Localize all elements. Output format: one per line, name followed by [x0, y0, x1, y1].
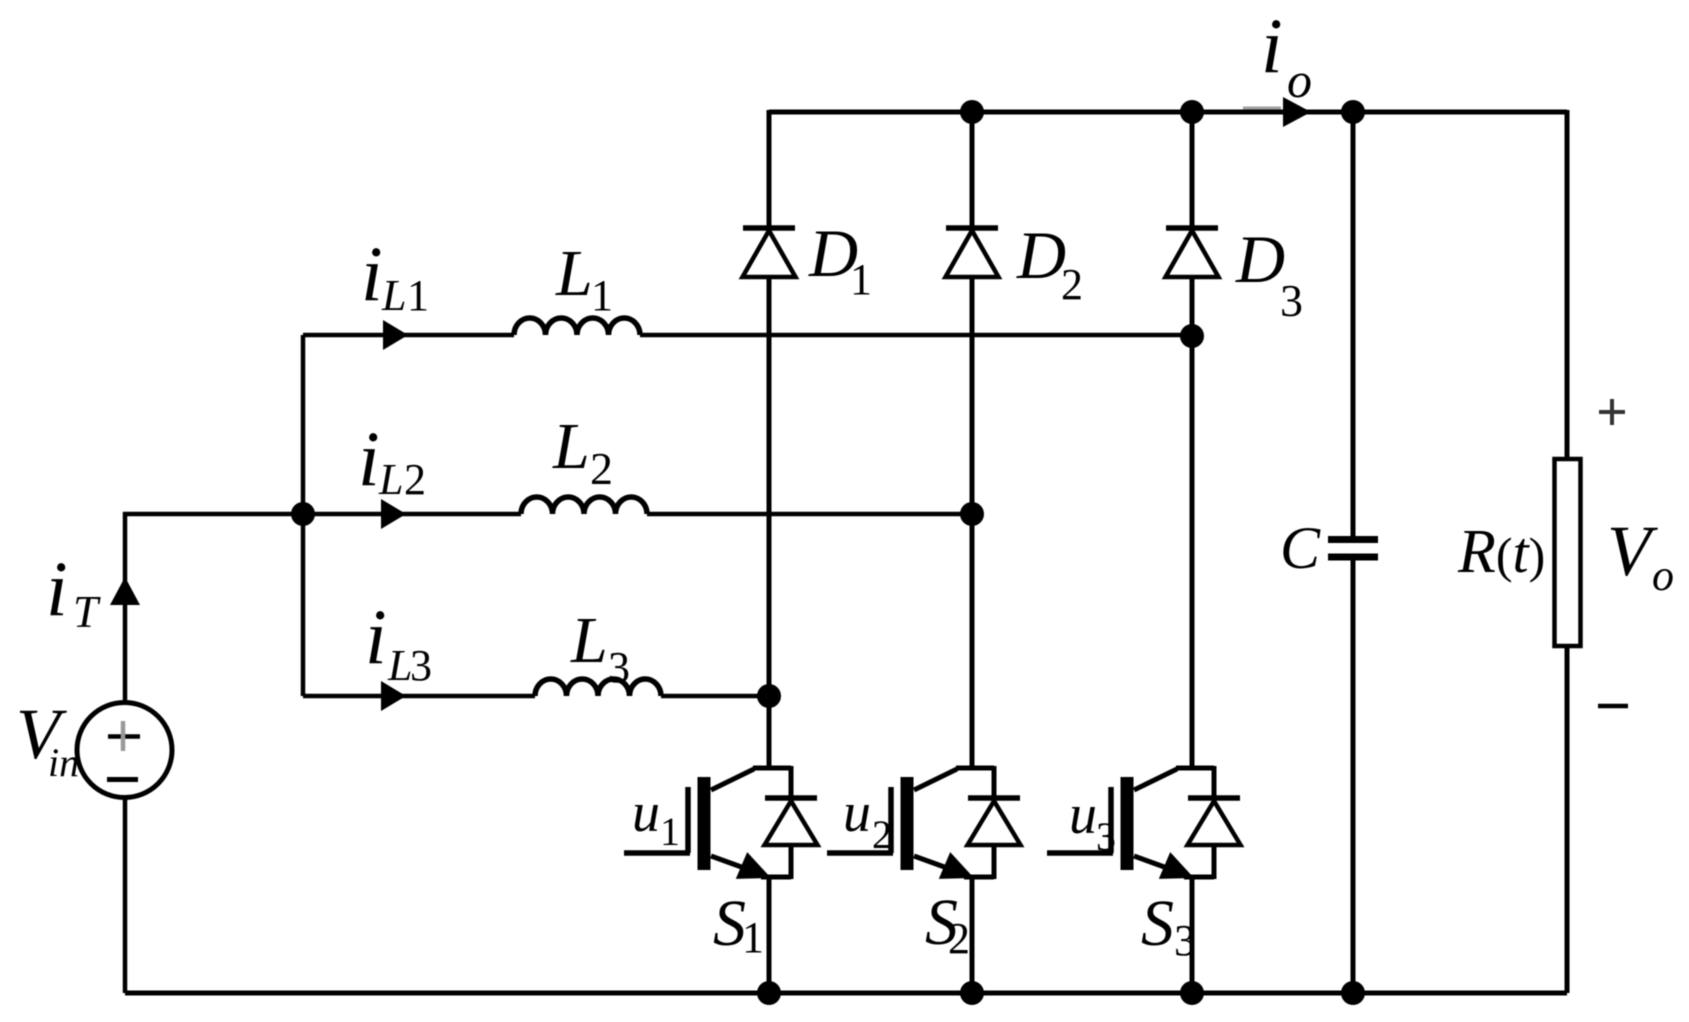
svg-text:C: C	[1280, 515, 1321, 581]
transistor S1 (IGBT with antiparallel diode)	[624, 766, 818, 879]
inductor L3	[535, 679, 661, 696]
inductor L1	[514, 318, 640, 335]
arrow i_L1	[383, 320, 408, 350]
wire top rail	[769, 110, 1567, 115]
svg-text:2: 2	[404, 455, 426, 504]
label plus Vo	[1599, 399, 1625, 425]
node bottom S1	[757, 981, 781, 1005]
svg-text:2: 2	[948, 914, 970, 963]
node bottom capacitor	[1341, 981, 1365, 1005]
svg-text:i: i	[361, 230, 383, 317]
wire D3/S3 column	[1190, 112, 1195, 993]
svg-text:3: 3	[1174, 916, 1196, 965]
source Vin	[77, 703, 172, 798]
svg-text:D: D	[1016, 217, 1066, 293]
svg-text:o: o	[1652, 551, 1674, 600]
resistor R(t)	[1555, 459, 1581, 646]
node bottom S3	[1180, 981, 1204, 1005]
wire i_o arrow shaft	[1243, 107, 1281, 110]
svg-text:L: L	[378, 455, 403, 504]
svg-text:u: u	[1069, 784, 1097, 846]
node top D3	[1180, 100, 1204, 124]
svg-text:D: D	[1235, 221, 1285, 297]
wire L3 row	[303, 694, 769, 699]
wire right side	[1565, 110, 1570, 993]
diode D3	[1166, 228, 1219, 277]
node top capacitor	[1341, 100, 1365, 124]
svg-text:u: u	[843, 782, 871, 844]
svg-text:2: 2	[590, 443, 613, 494]
arrow i_L2	[381, 499, 406, 529]
svg-text:1: 1	[660, 809, 680, 854]
wire L2 row	[303, 512, 972, 517]
svg-text:L: L	[552, 410, 590, 483]
capacitor C	[1328, 540, 1378, 558]
node L3-S1	[757, 684, 781, 708]
node junction left	[291, 502, 315, 526]
svg-text:L: L	[555, 237, 593, 310]
svg-text:S: S	[1141, 887, 1174, 960]
wire left side	[123, 512, 303, 993]
svg-text:o: o	[1287, 52, 1312, 108]
svg-text:L: L	[570, 604, 608, 677]
arrow i_L3	[381, 681, 406, 711]
transistor S2 (IGBT with antiparallel diode)	[827, 766, 1021, 879]
wire D1/S1 column	[767, 110, 772, 993]
inductor L2	[521, 497, 647, 514]
svg-text:R(t): R(t)	[1457, 518, 1545, 586]
transistor S3 (IGBT with antiparallel diode)	[1047, 766, 1241, 879]
svg-text:3: 3	[1280, 275, 1303, 326]
svg-text:L: L	[387, 641, 412, 690]
svg-text:u: u	[632, 782, 660, 844]
diode D1	[743, 228, 796, 277]
svg-text:3: 3	[608, 643, 630, 692]
svg-text:i: i	[358, 415, 380, 502]
node L2-D2	[960, 502, 984, 526]
svg-text:in: in	[48, 740, 79, 785]
svg-text:i: i	[1261, 2, 1283, 89]
wire L1 row	[303, 333, 1192, 338]
svg-text:2: 2	[1061, 260, 1083, 309]
arrow i_T	[110, 577, 140, 605]
svg-text:1: 1	[407, 271, 429, 320]
svg-text:i: i	[46, 545, 68, 632]
svg-text:2: 2	[872, 812, 892, 857]
svg-text:1: 1	[742, 913, 764, 962]
svg-text:V: V	[1607, 511, 1658, 591]
node top D2	[960, 100, 984, 124]
label minus Vo	[1598, 704, 1628, 709]
wire bottom rail	[125, 991, 1567, 996]
svg-text:3: 3	[410, 641, 432, 690]
wire capacitor column	[1351, 112, 1356, 993]
arrow i_o	[1283, 97, 1311, 127]
svg-text:T: T	[73, 587, 101, 637]
svg-text:3: 3	[1096, 814, 1116, 859]
svg-text:i: i	[365, 593, 387, 680]
node bottom S2	[960, 981, 984, 1005]
wire D2/S2 column	[970, 112, 975, 993]
node L1-D3	[1180, 324, 1204, 348]
svg-text:L: L	[381, 271, 406, 320]
svg-text:1: 1	[850, 255, 872, 304]
svg-text:1: 1	[591, 271, 613, 320]
diode D2	[946, 228, 999, 277]
wire junction vertical	[301, 335, 306, 696]
